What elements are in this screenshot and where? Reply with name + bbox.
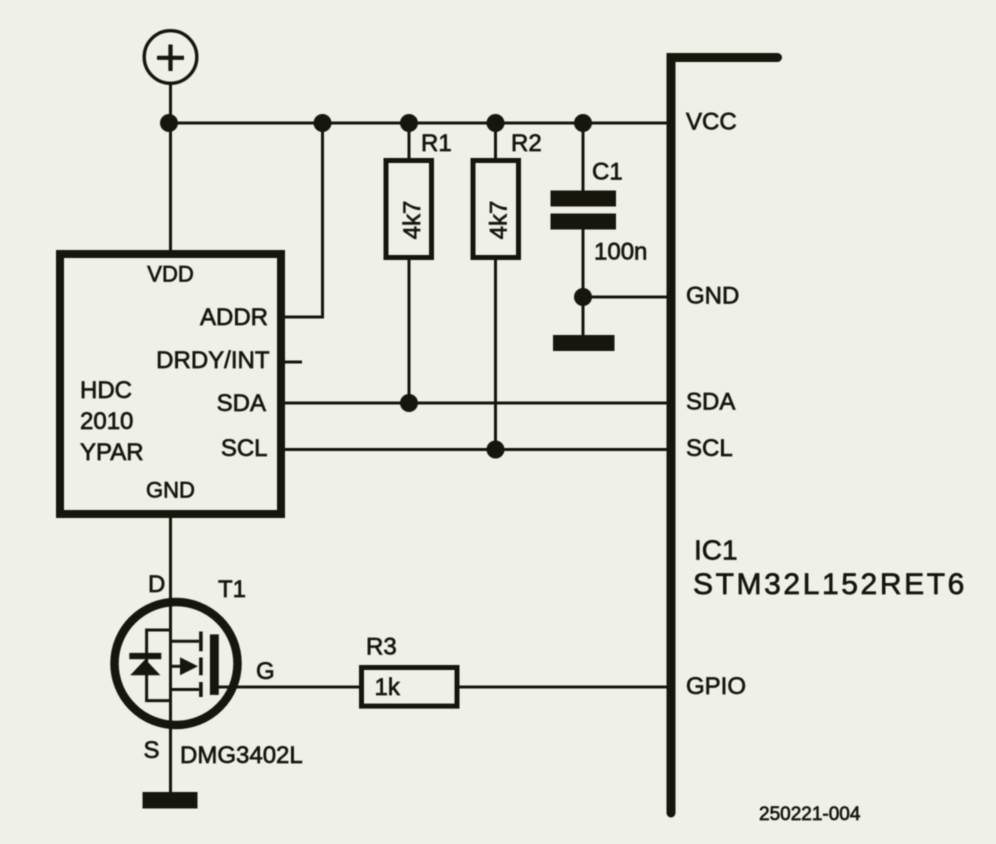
svg-text:YPAR: YPAR <box>80 439 144 466</box>
wire ADDR riser <box>282 123 323 317</box>
node R2 top junction <box>487 114 505 132</box>
wire R3 to GPIO <box>458 686 667 689</box>
body diode triangle <box>130 659 160 675</box>
wire HDC GND drop / MOSFET drain-source line <box>169 518 172 792</box>
wire SCL bus <box>282 448 667 451</box>
capacitor C1 <box>551 123 648 297</box>
svg-text:R1: R1 <box>421 130 452 157</box>
svg-text:D: D <box>148 571 165 598</box>
svg-text:4k7: 4k7 <box>399 201 426 240</box>
svg-text:HDC: HDC <box>80 377 132 404</box>
node C1 top junction <box>574 114 592 132</box>
body diode branch <box>147 630 171 701</box>
svg-text:250221-004: 250221-004 <box>759 804 861 825</box>
svg-text:G: G <box>256 658 275 685</box>
node C1 bottom junction <box>574 288 592 306</box>
source channel leg <box>171 688 200 691</box>
channel ticks <box>199 632 203 698</box>
resistor R3 <box>362 634 458 707</box>
svg-text:1k: 1k <box>375 674 401 701</box>
svg-text:SCL: SCL <box>221 435 268 462</box>
svg-text:VDD: VDD <box>147 262 193 287</box>
svg-text:DRDY/INT: DRDY/INT <box>156 347 270 374</box>
resistor R2 <box>473 123 542 450</box>
node supply junction <box>160 114 178 132</box>
transistor T1 MOSFET DMG3402L <box>115 571 303 769</box>
IC HDC2010 sensor box <box>60 254 281 514</box>
wire GND to IC1 <box>583 296 667 299</box>
svg-text:S: S <box>144 737 160 764</box>
ground symbol below C1 <box>553 335 615 351</box>
svg-text:GND: GND <box>686 283 739 310</box>
node ADDR junction <box>314 114 332 132</box>
svg-text:GPIO: GPIO <box>686 673 746 700</box>
drain channel leg <box>171 640 200 643</box>
bulk arrow head <box>180 657 198 675</box>
svg-text:SCL: SCL <box>686 435 733 462</box>
svg-text:SDA: SDA <box>217 390 266 417</box>
svg-text:DMG3402L: DMG3402L <box>180 742 303 769</box>
svg-text:R2: R2 <box>511 130 542 157</box>
svg-text:IC1: IC1 <box>694 535 738 566</box>
svg-text:ADDR: ADDR <box>200 304 268 331</box>
svg-text:R3: R3 <box>366 634 397 661</box>
node SCL junction <box>487 441 505 459</box>
svg-text:GND: GND <box>146 478 195 503</box>
svg-text:SDA: SDA <box>686 389 735 416</box>
wire gate to R3 <box>218 686 361 689</box>
body diode cathode bar <box>129 653 161 659</box>
node R1 top junction <box>400 114 418 132</box>
svg-text:100n: 100n <box>594 239 647 266</box>
gate plate bar <box>210 634 219 695</box>
bulk arrow leg <box>171 665 182 668</box>
wire supply drop to VDD <box>169 83 172 250</box>
wire SDA bus <box>282 402 667 405</box>
svg-text:2010: 2010 <box>80 408 133 435</box>
power supply +V symbol <box>144 31 197 84</box>
resistor R1 <box>386 123 452 403</box>
ground symbol below source <box>143 792 198 809</box>
wire DRDY/INT stub <box>281 361 302 364</box>
svg-text:4k7: 4k7 <box>486 201 513 240</box>
svg-text:T1: T1 <box>218 576 246 603</box>
wire VCC rail <box>169 122 667 125</box>
IC1 microcontroller bracket <box>671 58 778 814</box>
svg-text:VCC: VCC <box>686 109 737 136</box>
wire C1 to ground <box>582 297 585 336</box>
svg-text:C1: C1 <box>592 159 623 186</box>
svg-text:STM32L152RET6: STM32L152RET6 <box>693 568 967 601</box>
node SDA junction <box>400 394 418 412</box>
